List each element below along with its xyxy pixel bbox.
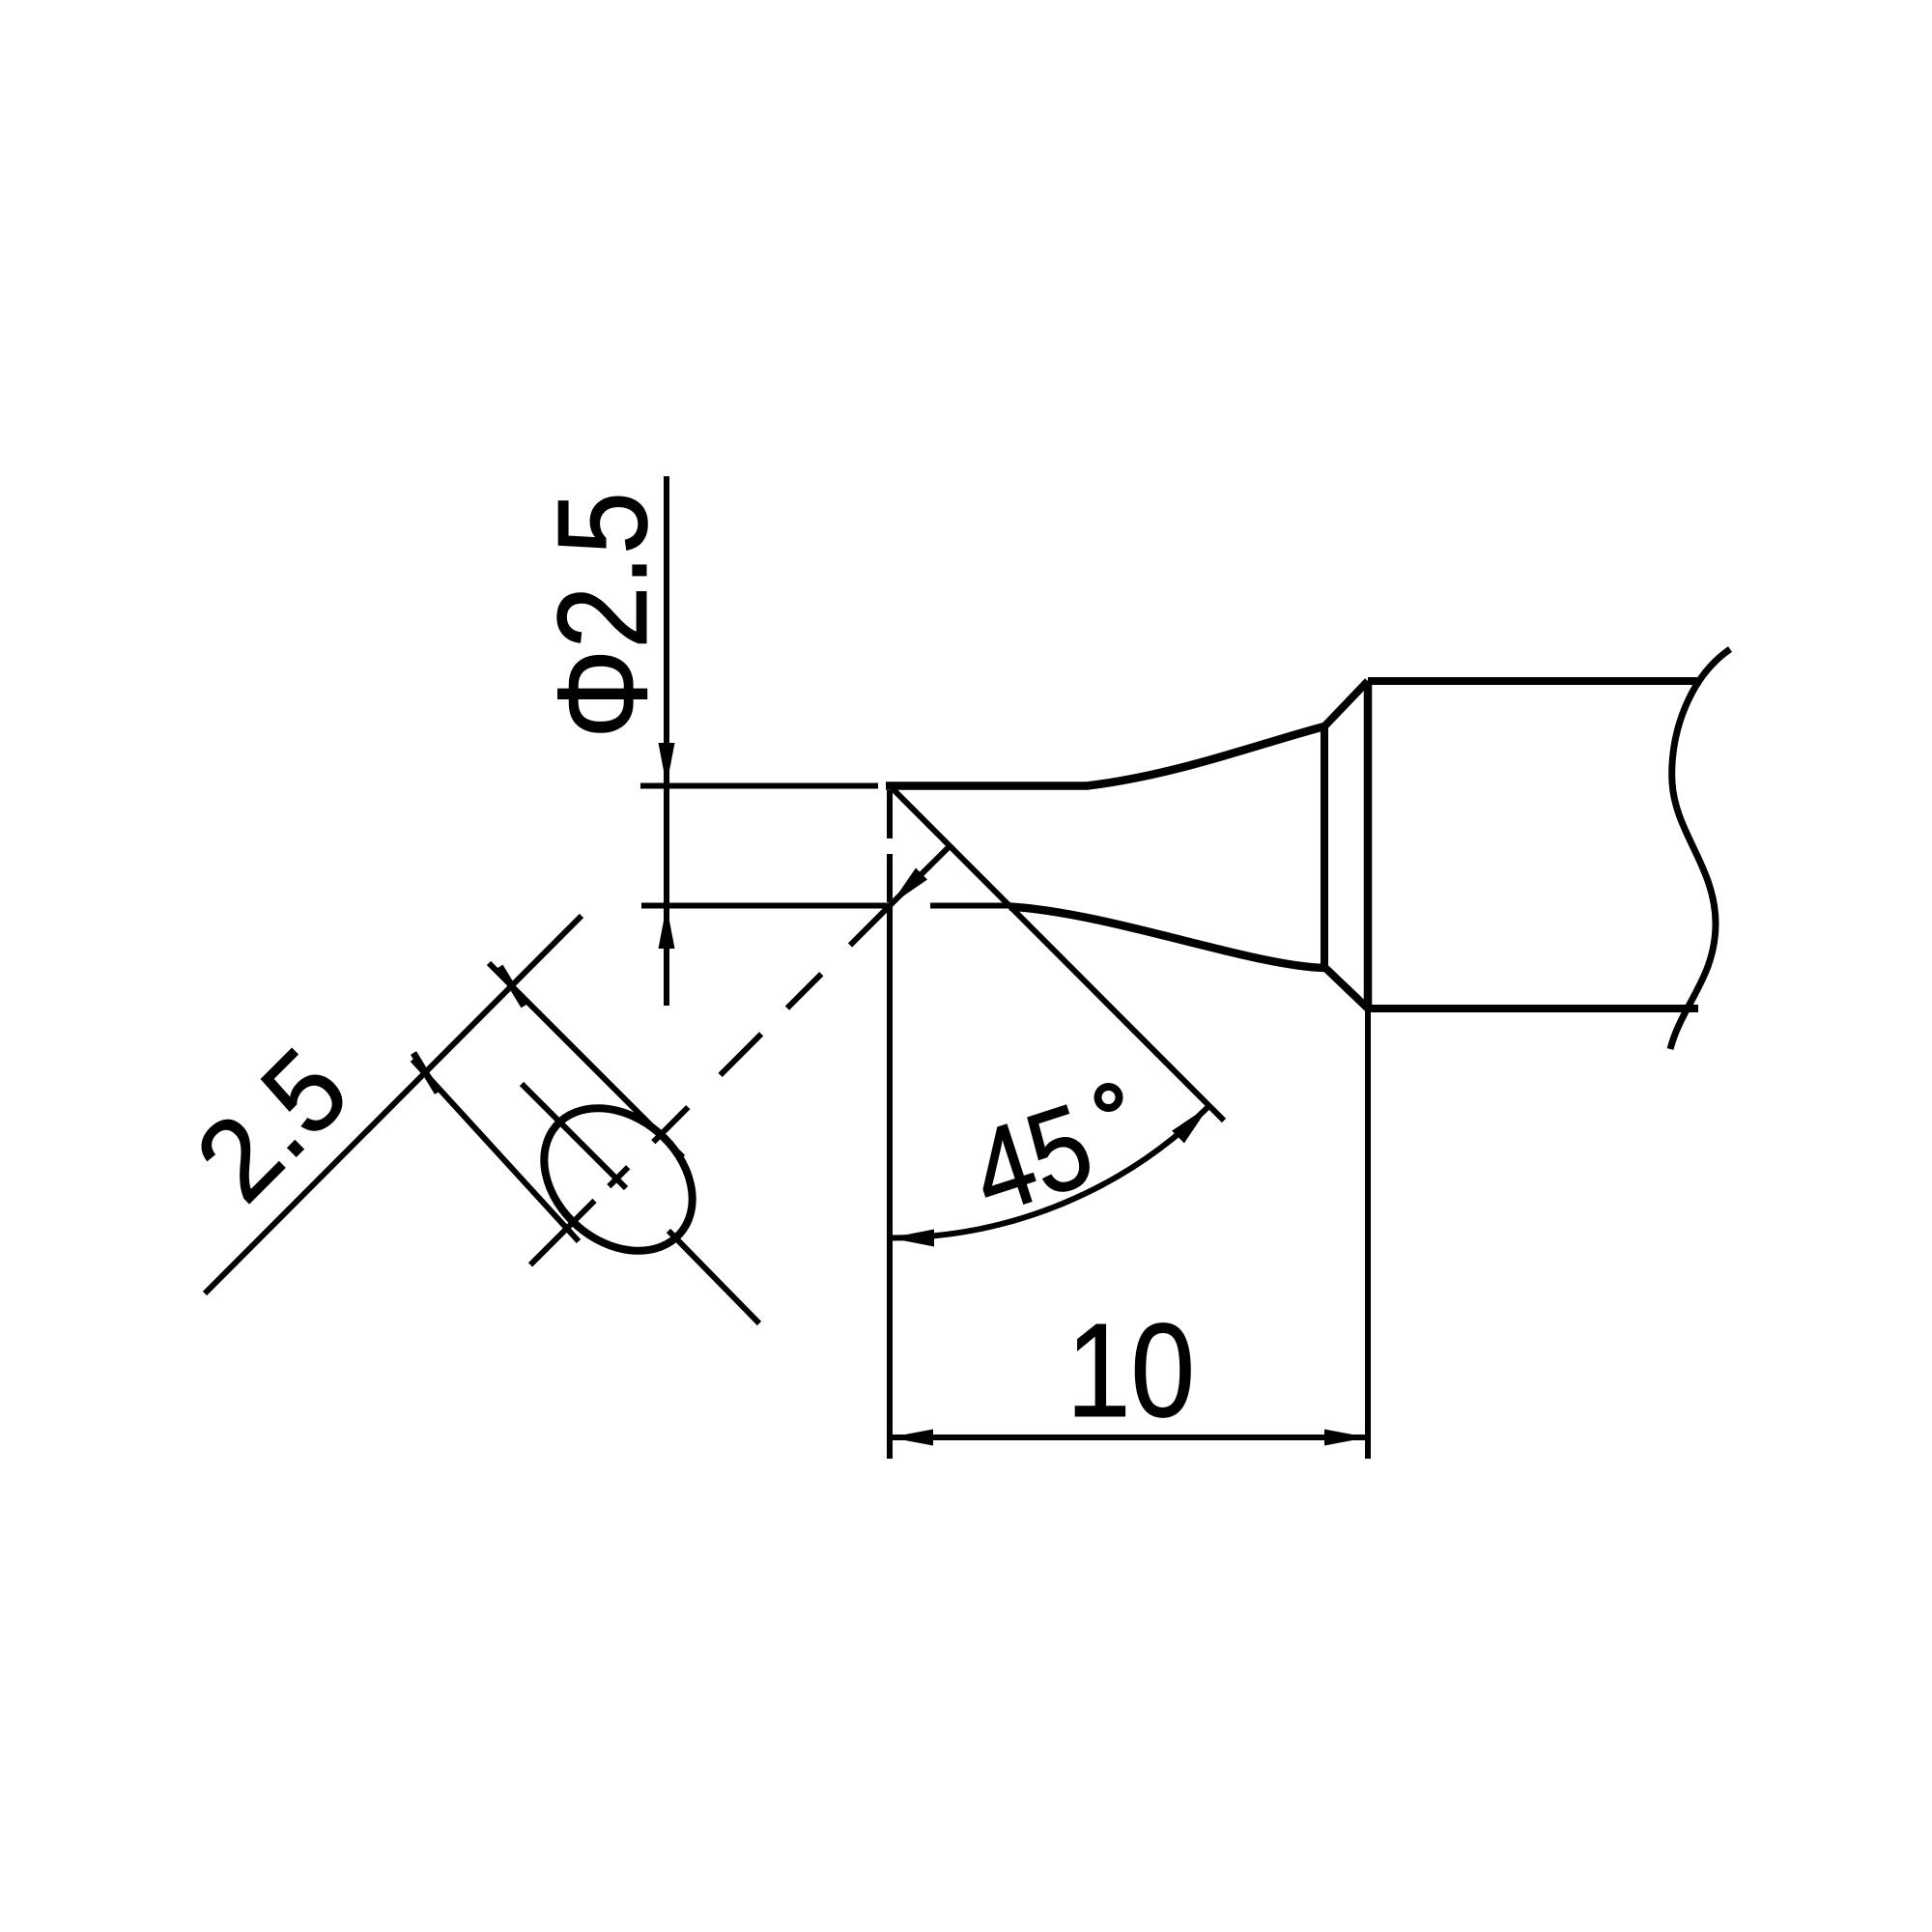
- bevel cut edge / 45-deg extension diagonal: [890, 786, 1224, 1122]
- degree symbol: [1098, 1087, 1120, 1108]
- tip bottom hidden edge (dashed): [930, 903, 1010, 909]
- 2.5 oblique tick 2: [500, 967, 525, 1007]
- svg-text:Φ2.5: Φ2.5: [531, 492, 673, 739]
- dia 2.5 arrow bottom (pointing up): [659, 906, 675, 950]
- 2.5 dim extension line 2 (SW side): [412, 1060, 579, 1241]
- svg-text:10: 10: [1066, 1296, 1195, 1445]
- 45-deg arc arrow top (pointing up-right): [1172, 1106, 1209, 1144]
- hidden tip end edge (dashed vertical): [887, 790, 893, 906]
- dia 2.5 dimension line: [664, 476, 669, 1006]
- dia 2.5 top extension line: [640, 783, 878, 789]
- view direction arrow shaft: [890, 846, 950, 906]
- 2.5 oblique tick 1: [413, 1053, 438, 1093]
- dia 2.5 arrow top (pointing down): [659, 743, 675, 786]
- 45-deg arc arrow bottom (pointing left): [890, 1230, 934, 1247]
- tip bottom flare outline: [1009, 907, 1324, 969]
- shank bottom outline: [1368, 1005, 1698, 1012]
- aux view major-axis centerline: [522, 1084, 759, 1323]
- 2.5 dim extension line 1 (NE side): [489, 963, 683, 1157]
- 10 dim right extension line: [1365, 1009, 1371, 1459]
- cut face ellipse: [516, 1079, 721, 1280]
- 2.5 dimension line: [205, 916, 582, 1293]
- cone bottom edge: [1324, 967, 1368, 1009]
- dia 2.5 bottom extension line: [641, 903, 890, 909]
- view direction arrowhead at apex: [891, 868, 928, 906]
- break line (S-curve): [1670, 649, 1730, 1049]
- aux view projection centerline (dashed, minor axis): [530, 906, 890, 1265]
- plating ring edge: [1321, 726, 1328, 967]
- 45-deg angle arc: [890, 1106, 1209, 1238]
- 10 dimension line: [890, 1435, 1368, 1440]
- shank top outline: [1368, 677, 1701, 685]
- 10 arrow left: [890, 1430, 933, 1446]
- 10 arrow right: [1324, 1430, 1368, 1446]
- 10 dim left extension line (also 45-deg vertex vertical): [887, 906, 893, 1460]
- shank shoulder vertical edge: [1364, 681, 1373, 1009]
- cone top edge: [1324, 681, 1368, 726]
- tip top outline with flare curve: [886, 726, 1324, 786]
